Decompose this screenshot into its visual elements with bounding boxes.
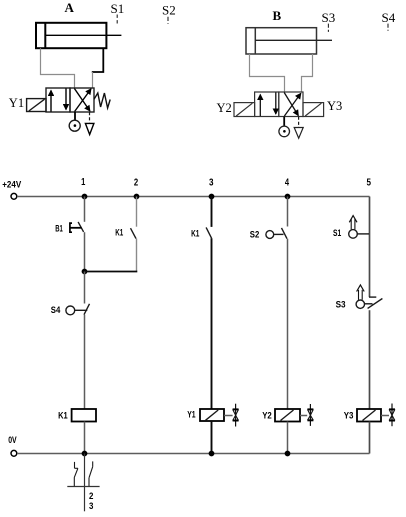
valve V2 crossed arrows xyxy=(284,93,301,117)
contact K1 rung 3 xyxy=(206,227,212,238)
svg-text:Y2: Y2 xyxy=(217,101,232,115)
0V label xyxy=(8,435,17,446)
0V rail xyxy=(17,453,370,455)
valve V2 left position arrows xyxy=(260,93,276,117)
node rail column 1 xyxy=(82,194,88,200)
wire column 1 middle xyxy=(84,232,86,271)
svg-text:S2: S2 xyxy=(250,230,259,241)
rung reference number 3 xyxy=(89,501,93,512)
cylinder B piston xyxy=(254,28,256,54)
svg-text:K1: K1 xyxy=(191,229,200,240)
wire column 4 to coil Y2 xyxy=(287,239,289,409)
limit switch marker S2 xyxy=(162,3,176,24)
rung number 4 xyxy=(285,176,289,188)
cylinder A piston xyxy=(44,23,46,48)
coil Y3 xyxy=(357,409,381,422)
label K1 rung 2 xyxy=(115,228,123,239)
contact S3 normally closed xyxy=(356,297,382,308)
wire coil Y2 to 0V rail xyxy=(287,422,289,454)
label S3 xyxy=(336,299,346,310)
contact reference NO mini contact xyxy=(89,461,93,486)
svg-text:0V: 0V xyxy=(8,435,17,446)
rung number 2 xyxy=(134,176,138,188)
label B xyxy=(273,8,282,23)
svg-text:S4: S4 xyxy=(51,305,61,316)
svg-text:2: 2 xyxy=(134,176,138,188)
svg-text:2: 2 xyxy=(89,491,93,502)
node rail column 2 xyxy=(134,194,140,200)
svg-text:A: A xyxy=(65,0,75,15)
node 0V column 4 xyxy=(285,451,291,457)
contact B1 xyxy=(70,222,84,232)
solenoid Y3 xyxy=(303,103,324,117)
svg-text:K1: K1 xyxy=(115,228,123,239)
svg-text:5: 5 xyxy=(366,176,371,188)
svg-text:S1: S1 xyxy=(333,228,342,239)
limit switch marker S1 xyxy=(111,1,125,24)
rung number 1 xyxy=(81,176,85,188)
+24V supply terminal xyxy=(11,193,17,199)
svg-text:S3: S3 xyxy=(336,299,346,310)
svg-text:1: 1 xyxy=(81,176,85,188)
node junction B1/K1 xyxy=(82,269,88,275)
rung number 3 xyxy=(209,176,214,188)
valve reference symbol Y2 xyxy=(307,404,313,426)
svg-text:Y2: Y2 xyxy=(262,410,272,421)
label S2 xyxy=(250,230,259,241)
svg-text:K1: K1 xyxy=(58,411,68,422)
wire coil K1 to 0V rail xyxy=(84,422,86,454)
valve symbol link Y2 xyxy=(300,415,307,417)
actuation arrow S3 xyxy=(357,285,365,300)
exhaust under valve V2 xyxy=(294,117,303,139)
0V supply terminal xyxy=(11,450,17,456)
tube cylinder B rod port to valve V2 xyxy=(302,54,313,92)
valve reference symbol Y3 xyxy=(389,404,395,427)
svg-text:Y3: Y3 xyxy=(344,410,354,421)
node 0V column 3 xyxy=(209,451,215,457)
wire column 4 upper xyxy=(287,197,289,227)
valve reference symbol Y1 xyxy=(233,404,239,427)
node rail column 4 xyxy=(285,194,291,200)
wire column 1 to coil K1 xyxy=(84,315,86,409)
label S4 xyxy=(51,305,61,316)
wire coil Y1 to 0V rail xyxy=(211,421,213,454)
wire column 5 from rail corner xyxy=(369,197,371,298)
contact S1 xyxy=(349,230,369,239)
wire column 3 to coil Y1 xyxy=(211,238,213,409)
contact S2 xyxy=(266,228,287,239)
valve V2 body xyxy=(255,92,303,117)
svg-text:Y1: Y1 xyxy=(187,409,196,420)
contact K1 rung 2 xyxy=(131,228,137,238)
valve symbol link Y1 xyxy=(224,415,233,417)
node 0V column 1 xyxy=(82,451,88,457)
svg-text:B1: B1 xyxy=(55,224,63,235)
valve V1 left position arrows xyxy=(51,89,66,112)
contact reference NC mini contact xyxy=(74,462,78,486)
cylinder B piston rod xyxy=(255,39,332,41)
contact S4 xyxy=(66,304,90,315)
valve V1 crossed arrows xyxy=(74,89,91,112)
wire column 5 to coil Y3 xyxy=(369,310,371,409)
wire column 1 upper xyxy=(84,197,86,222)
svg-text:Y3: Y3 xyxy=(327,99,342,113)
svg-text:Y1: Y1 xyxy=(9,96,24,110)
svg-text:S4: S4 xyxy=(382,10,396,25)
label Y3 xyxy=(327,99,342,113)
cylinder B body xyxy=(246,28,317,54)
label Y1 coil xyxy=(187,409,196,420)
wire column 1 to S4 xyxy=(84,272,86,304)
contact reference table bar xyxy=(67,486,99,488)
svg-text:4: 4 xyxy=(285,176,289,188)
valve symbol link Y3 xyxy=(381,415,389,417)
solenoid Y1 xyxy=(27,99,46,112)
exhaust under valve V1 xyxy=(85,112,94,135)
svg-text:3: 3 xyxy=(209,176,214,188)
svg-text:+24V: +24V xyxy=(2,179,22,190)
return spring valve V1 xyxy=(94,93,110,108)
pressure source under valve V2 xyxy=(279,117,290,137)
svg-text:B: B xyxy=(273,8,282,23)
actuation arrow S1 xyxy=(349,216,357,230)
contact reference table stem K1 xyxy=(84,454,86,512)
+24V label xyxy=(2,179,22,190)
label A xyxy=(65,0,75,15)
limit switch marker S3 xyxy=(322,10,336,32)
limit switch marker S4 xyxy=(382,10,396,31)
label Y2 xyxy=(217,101,232,115)
tube cylinder A cap port to valve V1 xyxy=(41,48,75,88)
node rail column 3 xyxy=(209,194,215,200)
solenoid Y2 xyxy=(234,103,255,117)
label K1 rung 3 xyxy=(191,229,200,240)
cylinder A piston rod xyxy=(45,34,121,36)
cylinder A body xyxy=(36,23,106,48)
svg-text:S1: S1 xyxy=(111,1,125,16)
wire column 2 lower and link to column 1 xyxy=(85,239,138,272)
label S1 xyxy=(333,228,342,239)
pressure source under valve V1 xyxy=(69,112,80,131)
tube cylinder A rod port to valve V1 xyxy=(92,48,104,87)
coil Y2 xyxy=(275,409,300,422)
label Y3 coil xyxy=(344,410,354,421)
tube cylinder B cap port to valve V2 xyxy=(250,54,285,92)
wire column 3 upper xyxy=(211,197,213,227)
rung reference number 2 xyxy=(89,491,93,502)
+24V rail xyxy=(17,196,370,198)
coil K1 xyxy=(72,409,96,422)
svg-text:S3: S3 xyxy=(322,10,336,25)
rung number 5 xyxy=(366,176,371,188)
svg-text:3: 3 xyxy=(89,501,93,512)
label B1 xyxy=(55,224,63,235)
wire coil Y3 to 0V rail xyxy=(369,422,371,454)
label Y1 xyxy=(9,96,24,110)
label Y2 coil xyxy=(262,410,272,421)
wire column 2 upper xyxy=(136,197,138,227)
valve V1 body xyxy=(46,88,94,112)
coil Y1 xyxy=(200,409,224,421)
label K1 coil xyxy=(58,411,68,422)
svg-text:S2: S2 xyxy=(162,3,176,18)
